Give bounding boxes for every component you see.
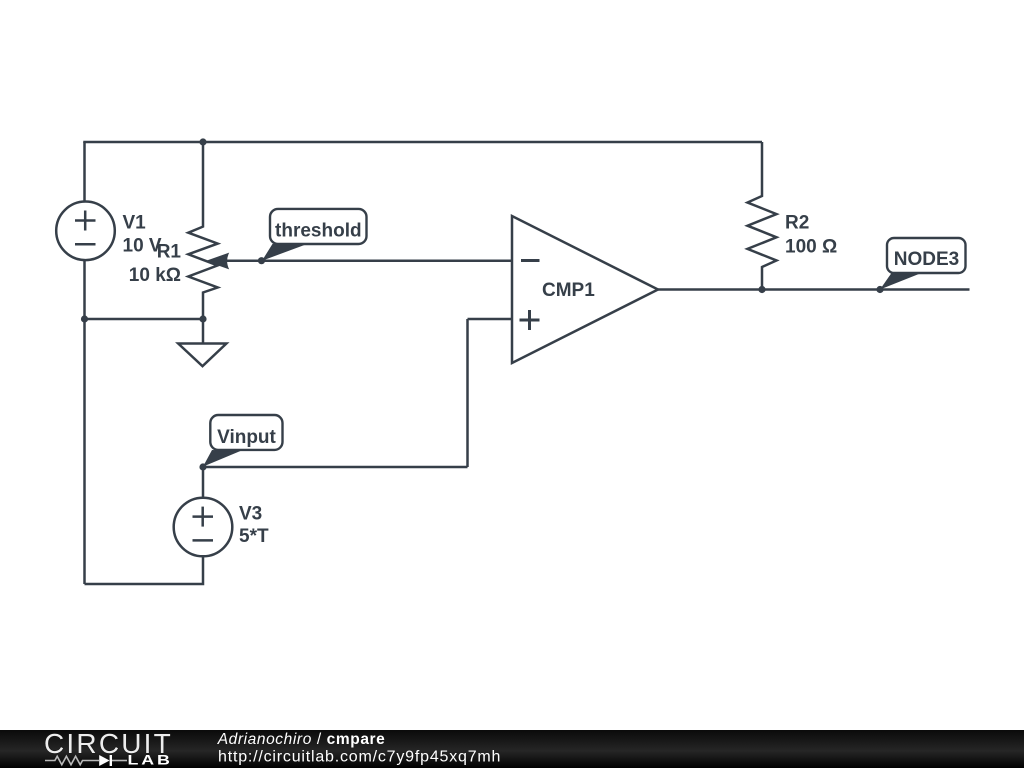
- node R2 bottom junction: [758, 286, 765, 293]
- svg-text:V1: V1: [123, 212, 147, 233]
- wire left vertical: [83, 142, 86, 584]
- V3 label: [239, 503, 269, 547]
- svg-text:R2: R2: [785, 212, 809, 233]
- node left ground junction: [81, 315, 88, 322]
- wire plus input: [468, 318, 513, 321]
- voltage source V1: [56, 202, 115, 261]
- node threshold flag: [262, 209, 367, 261]
- resistor R1 (potentiometer): [188, 142, 217, 319]
- wire vinput horizontal: [203, 466, 468, 469]
- V1 label: [123, 212, 162, 256]
- node NODE3 junction: [876, 286, 883, 293]
- op-amp CMP1 comparator: [512, 216, 658, 363]
- svg-text:V3: V3: [239, 503, 262, 524]
- svg-text:threshold: threshold: [275, 221, 362, 242]
- svg-text:http://circuitlab.com/c7y9fp45: http://circuitlab.com/c7y9fp45xq7mh: [218, 748, 501, 765]
- svg-text:10 V: 10 V: [123, 235, 162, 256]
- wire vertical to plus input: [466, 319, 469, 467]
- svg-text:100 Ω: 100 Ω: [785, 236, 837, 257]
- svg-text:CMP1: CMP1: [542, 280, 595, 301]
- R1 wiper arrow: [206, 253, 230, 270]
- svg-text:NODE3: NODE3: [894, 249, 959, 270]
- footer bar: [0, 730, 1024, 768]
- node R1 top: [199, 138, 206, 145]
- svg-text:5*T: 5*T: [239, 526, 269, 547]
- node Vinput junction: [199, 463, 206, 470]
- wire minus input from wiper: [220, 259, 512, 262]
- logo diode: [99, 755, 109, 766]
- node R1 bottom junction: [199, 315, 206, 322]
- resistor R2: [748, 142, 777, 290]
- svg-text:Vinput: Vinput: [217, 427, 276, 448]
- svg-text:LAB: LAB: [128, 753, 173, 768]
- ground: [178, 319, 226, 366]
- node NODE3 flag: [880, 238, 966, 290]
- node Vinput flag: [203, 415, 283, 467]
- svg-text:Adrianochiro / cmpare: Adrianochiro / cmpare: [217, 731, 386, 748]
- voltage source V3: [174, 498, 233, 557]
- wire bottom horizontal: [85, 467, 204, 584]
- wire output: [658, 288, 970, 291]
- logo resistor-diode line art: [45, 756, 99, 764]
- node threshold junction: [258, 257, 265, 264]
- wire top horizontal: [85, 142, 763, 143]
- wire ground horizontal: [85, 318, 204, 321]
- R2 label: [785, 212, 837, 257]
- svg-text:10 kΩ: 10 kΩ: [129, 265, 181, 286]
- R1 label: [129, 242, 182, 286]
